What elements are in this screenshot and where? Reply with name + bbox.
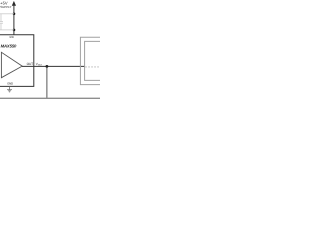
+5V supply label bbox=[0, 1, 11, 10]
junction dot at VDD pin bbox=[13, 29, 16, 32]
DUT box outer (clipped at right edge) bbox=[80, 37, 103, 84]
DUT box inner (clipped at right edge) bbox=[85, 41, 103, 80]
svg-text:SUPPLY: SUPPLY bbox=[0, 5, 11, 9]
svg-text:GND: GND bbox=[7, 82, 13, 86]
ground symbol below box bbox=[7, 86, 12, 92]
junction dot upper (bypass tap) bbox=[13, 13, 16, 16]
wire: 5V supply vertical bbox=[13, 5, 15, 35]
svg-text:VDD: VDD bbox=[9, 36, 14, 39]
bypass capacitor C1 (clipped at left edge) bbox=[0, 14, 14, 30]
5V supply arrowhead bbox=[12, 1, 16, 6]
wire: VOUT branch down to bottom rail bbox=[46, 66, 48, 98]
svg-text:MAX550: MAX550 bbox=[1, 44, 17, 49]
svg-text:OUT: OUT bbox=[27, 62, 34, 66]
wire: VOUT internal continuation (dashed) bbox=[85, 66, 100, 68]
wire: bottom rail (clipped both ends) bbox=[0, 97, 100, 99]
DAC output buffer amplifier triangle bbox=[1, 52, 22, 77]
svg-text:VOUT: VOUT bbox=[36, 62, 43, 67]
junction dot on VOUT node bbox=[46, 65, 49, 68]
wire: VOUT from amp tip through box edge to DUT bbox=[22, 65, 85, 67]
IC U1 MAX550 box (clipped at left edge) bbox=[0, 35, 34, 87]
